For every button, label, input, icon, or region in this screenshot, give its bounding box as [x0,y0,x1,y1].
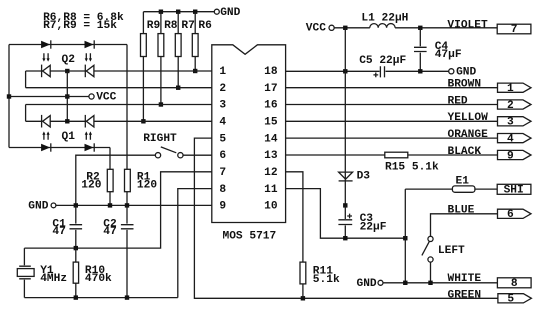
wire Q1 LED row [9,147,110,149]
svg-text:R7: R7 [181,20,194,32]
svg-text:11: 11 [264,184,278,196]
svg-text:VCC: VCC [306,22,326,34]
svg-text:120: 120 [81,180,101,192]
wire crystal bottom row [24,297,177,299]
node R9 to pin4 wire [141,119,145,123]
node photodiode mid top [65,69,69,73]
svg-text:Q2: Q2 [62,54,76,66]
wire pin 13 to R15 [286,154,385,156]
svg-text:VCC: VCC [96,91,116,103]
resistor R10 [73,248,112,298]
wire pin 17 to connector 1 [286,87,498,89]
svg-text:GND: GND [220,7,240,19]
wire L1 to connector 7 [395,27,497,29]
net label VIOLET [447,19,488,31]
resistor R1 [125,169,158,205]
svg-text:120: 120 [137,180,157,192]
svg-text:1: 1 [507,83,514,95]
net label RED [448,95,468,107]
svg-text:16: 16 [264,100,278,112]
svg-text:GND: GND [357,278,377,290]
node GND C1 [74,203,78,207]
wire pin 14 to connector 4 [286,137,498,139]
wire Q2 LED row [9,44,127,46]
wire left VCC rail [8,45,10,148]
LED Q1 right [85,143,95,151]
wire pin 6 to switch [183,154,212,156]
wire pin 2 row [26,87,212,89]
svg-text:YELLOW: YELLOW [448,112,489,124]
node crystal bottom C2 [125,295,129,299]
net label ORANGE [448,129,489,141]
svg-text:13: 13 [264,150,278,162]
svg-text:R15 5.1k: R15 5.1k [385,161,439,173]
node R6 to pin1 wire [193,69,197,73]
svg-text:10: 10 [264,201,278,213]
ground terminal right [449,67,477,79]
light arrows Q1 up [42,131,92,143]
svg-text:VIOLET: VIOLET [447,19,488,31]
svg-text:GND: GND [456,67,476,79]
node R7 to pin2 wire [176,86,180,90]
wire C5 to GND terminal [386,70,449,72]
LED Q1 left [41,143,51,151]
node centre tap VCC [65,94,69,98]
wire connector 6 to switch LEFT [431,214,498,237]
svg-text:MOS 5717: MOS 5717 [223,231,277,243]
node crystal top C1 R10 [74,246,78,250]
svg-text:4: 4 [219,117,226,129]
wire VCC to L1 [334,27,370,29]
photodiode Q2 right [85,65,94,78]
LED Q2 left [41,40,51,48]
svg-text:9: 9 [219,201,226,213]
wire Q1 bracket left [25,105,27,122]
wire photodiode centre tap [66,71,68,121]
capacitor C3 22uF [338,205,386,238]
node photodiode mid bottom [65,119,69,123]
ground terminal bottom [357,278,384,290]
wire VCC stub left [9,96,89,98]
svg-text:9: 9 [507,150,514,162]
node C3 bottom [343,236,347,240]
svg-text:47µF: 47µF [435,49,462,61]
net label WHITE [448,273,482,285]
photodiode Q1 left [42,115,51,128]
net label BLACK [448,146,482,158]
wire switch to GND drop [76,155,156,205]
svg-text:3: 3 [507,117,514,129]
svg-text:E1: E1 [456,175,470,187]
wire pin 18 to C5 [286,70,380,72]
svg-text:470k: 470k [85,273,112,285]
svg-text:2: 2 [507,100,514,112]
wire pin 15 to connector 3 [286,120,498,122]
node VCC drop on pin18 wire [343,69,347,73]
VCC terminal right [306,22,334,34]
svg-text:5: 5 [219,133,226,145]
wire Q2 LED row down to R1 [126,45,128,170]
svg-text:5.1k: 5.1k [313,274,340,286]
svg-text:8: 8 [511,278,518,290]
svg-text:22µF: 22µF [360,222,387,234]
connector 9 [498,150,532,162]
connector 6 [498,209,532,221]
wire pin 9 GND row [56,204,212,206]
node white switch [428,281,432,285]
svg-text:4MHz: 4MHz [40,273,67,285]
wire pin 16 to connector 2 [286,104,498,106]
svg-text:12: 12 [264,167,278,179]
wire Q1 LED row down to R2 [109,148,111,170]
svg-text:2: 2 [219,83,226,95]
svg-text:GREEN: GREEN [448,289,482,301]
wire top rail to GND [143,11,214,13]
node E1 drop mid [403,236,407,240]
wire Q2 bracket left [25,71,27,88]
svg-text:L1 22µH: L1 22µH [361,13,408,25]
svg-text:47: 47 [52,226,65,238]
node GND R1 C2 [125,203,129,207]
connector 1 [498,83,532,95]
node C4 bottom [418,69,422,73]
wire E1 branch vertical [404,189,406,283]
wire pin 8 to crystal bottom [178,189,212,298]
svg-text:15: 15 [264,117,278,129]
node R6 top [193,10,197,14]
node pin10 D3 C3 [343,203,347,207]
wire white row [383,282,497,284]
resistor R2 [81,169,113,205]
resistor R15 5.1k [385,152,439,173]
svg-text:WHITE: WHITE [448,273,482,285]
svg-text:Q1: Q1 [62,131,76,143]
diode D3 [339,171,371,206]
connector 5 [498,294,532,306]
capacitor C1 [52,205,82,248]
wire E1 to connector SHI [475,188,497,190]
wire pin 3 row [26,104,212,106]
node white E1 drop [403,281,407,285]
svg-text:4: 4 [507,133,514,145]
svg-text:BLACK: BLACK [448,146,482,158]
svg-text:C5 22µF: C5 22µF [359,55,406,67]
light arrows Q2 down [42,53,92,66]
svg-text:R6: R6 [198,20,212,32]
photodiode Q1 right [85,115,94,128]
svg-text:17: 17 [264,83,277,95]
photodiode Q2 left [42,65,51,78]
svg-text:3: 3 [219,100,226,112]
inductor L1 22uH [361,13,408,28]
LED Q2 right [85,40,95,48]
node violet C4 [418,26,422,30]
wire pin 1 row (Q2 photodiodes to IC) [26,70,212,72]
svg-text:LEFT: LEFT [438,245,465,257]
svg-text:8: 8 [219,184,226,196]
switch LEFT [422,236,465,262]
svg-text:1: 1 [219,66,226,78]
svg-text:BROWN: BROWN [448,79,482,91]
ferrite bead E1 [452,175,475,192]
node crystal bottom R10 [74,295,78,299]
svg-text:D3: D3 [357,171,371,183]
wire pin 11 to C3 bottom row [286,189,406,239]
svg-text:14: 14 [264,133,278,145]
IC U1 MOS 5717 [212,45,286,243]
svg-text:R8: R8 [164,20,178,32]
node R8 to pin3 wire [159,102,163,106]
svg-text:GND: GND [28,201,48,213]
wire switch LEFT to white row [430,262,432,283]
node left rail VCC [7,94,11,98]
switch RIGHT [143,133,183,158]
svg-text:R7,R9 = 15k: R7,R9 = 15k [43,20,117,32]
connector SHI [497,184,531,196]
connector 4 [498,133,532,145]
capacitor C5 22uF [359,55,406,78]
svg-text:RED: RED [448,95,468,107]
net label BROWN [448,79,482,91]
svg-text:RIGHT: RIGHT [143,133,177,145]
svg-text:ORANGE: ORANGE [448,129,489,141]
wire VCC drop to D3 [344,28,346,172]
capacitor C4 [414,28,462,72]
note text resistor values [43,12,124,32]
svg-text:18: 18 [264,66,278,78]
svg-text:6: 6 [507,209,514,221]
svg-text:7: 7 [219,167,226,179]
resistor R9 [141,12,161,122]
wire pin 12 to R11 [286,172,303,262]
crystal Y1 [17,248,67,298]
wire pin 5 down and green row [194,138,498,298]
wire pin 4 row (Q1 photodiodes to IC) [26,120,212,122]
net label GREEN [448,289,482,301]
resistor R8 [158,12,178,105]
connector 2 [498,100,532,112]
node VCC branch [343,26,347,30]
node green R11 [301,296,305,300]
net label YELLOW [448,112,489,124]
capacitor C2 [103,205,133,297]
node R7 top [176,10,180,14]
net label BLUE [448,205,475,217]
svg-text:5: 5 [507,294,514,306]
resistor R11 5.1k [300,262,340,298]
node GND R2 [108,203,112,207]
wire R15 to connector 9 [408,154,498,156]
node R8 top [159,10,163,14]
svg-text:6: 6 [219,150,226,162]
VCC terminal left [89,91,117,103]
resistor R6 [192,12,212,71]
wire E1 row [405,188,452,190]
svg-text:R9: R9 [147,20,161,32]
ground terminal top [214,7,240,19]
connector 3 [498,117,532,129]
svg-text:7: 7 [511,24,518,36]
svg-text:BLUE: BLUE [448,205,475,217]
resistor R7 [175,12,195,88]
svg-text:47: 47 [103,226,116,238]
wire pin 7 to crystal node [24,172,211,248]
svg-text:SHI: SHI [504,185,524,197]
ground terminal left [28,201,56,213]
connector 7 [497,24,531,36]
connector 8 [497,278,531,290]
